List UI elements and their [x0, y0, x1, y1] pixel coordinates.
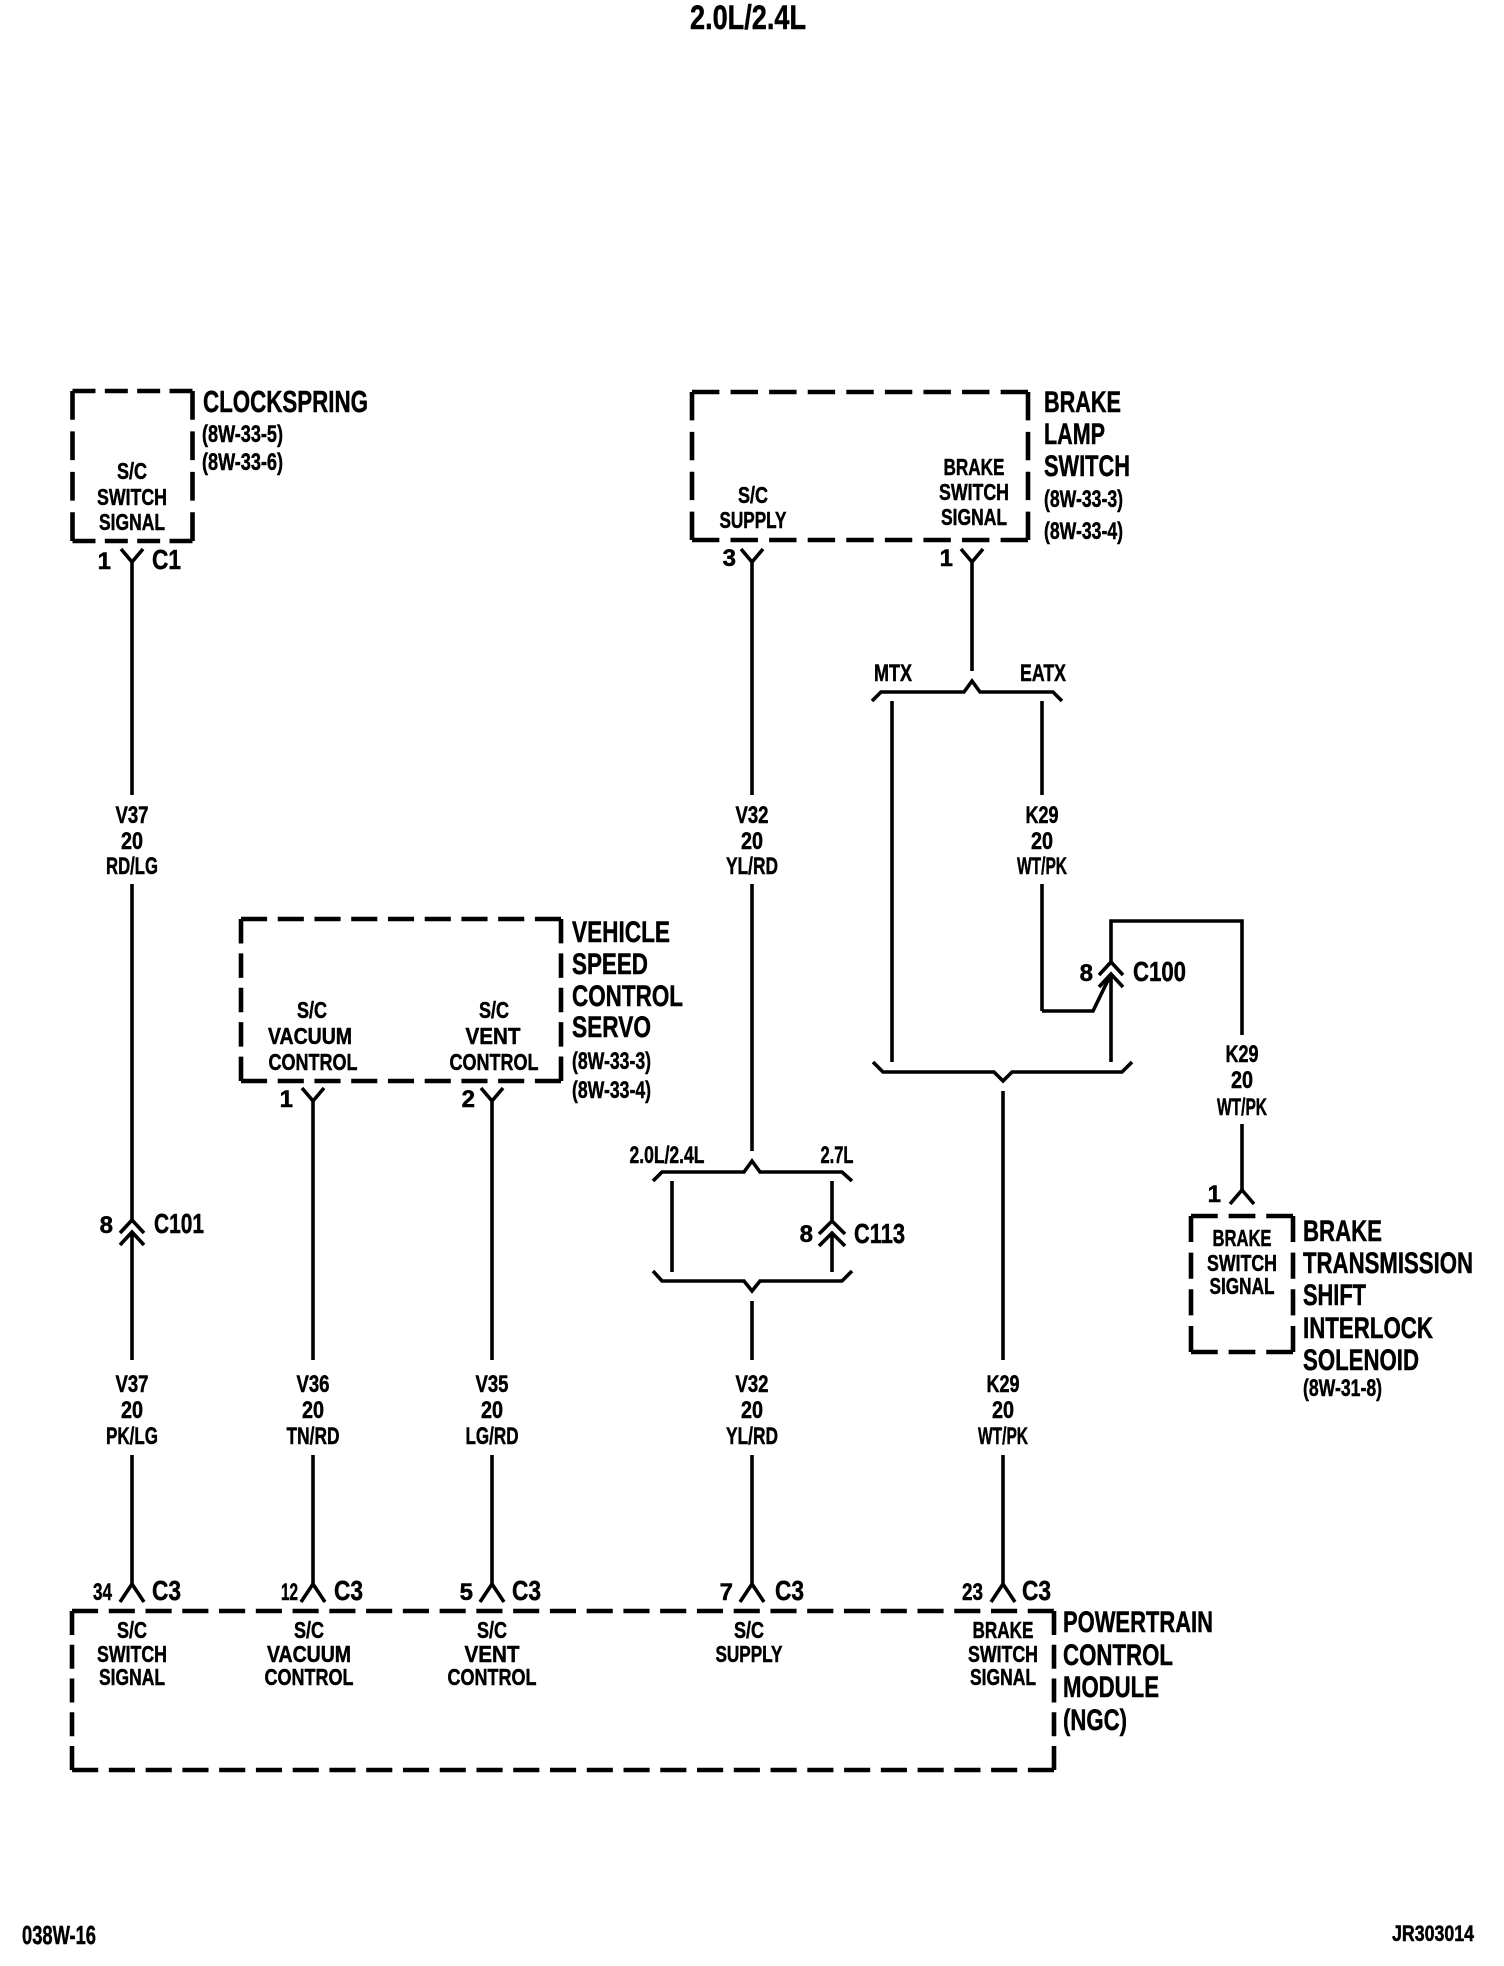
svg-text:BRAKE: BRAKE — [973, 1617, 1034, 1643]
svg-text:SHIFT: SHIFT — [1303, 1279, 1366, 1312]
svg-text:SIGNAL: SIGNAL — [970, 1664, 1036, 1690]
svg-text:PK/LG: PK/LG — [106, 1423, 158, 1450]
wire V32 20 YL/RD mid segment — [750, 884, 754, 1151]
connector C3 fork at PCM pin 34 — [120, 1584, 144, 1602]
svg-text:S/C: S/C — [294, 1617, 324, 1643]
wire MTX branch — [890, 701, 894, 1062]
svg-text:1: 1 — [940, 545, 953, 572]
svg-text:12: 12 — [281, 1579, 298, 1606]
svg-text:SWITCH: SWITCH — [939, 479, 1009, 505]
connector C113 inline chevrons — [819, 1221, 845, 1246]
component box: VEHICLE SPEED CONTROL SERVO — [241, 919, 561, 1081]
svg-text:CONTROL: CONTROL — [1063, 1639, 1173, 1672]
svg-text:(8W-33-3): (8W-33-3) — [572, 1048, 651, 1075]
svg-text:TRANSMISSION: TRANSMISSION — [1303, 1247, 1473, 1280]
svg-text:2.7L: 2.7L — [821, 1142, 854, 1169]
svg-text:SOLENOID: SOLENOID — [1303, 1344, 1419, 1377]
wire elbow to C100 — [1042, 974, 1111, 1011]
wire K29 20 WT/PK lower segment — [1001, 1455, 1005, 1584]
svg-text:20: 20 — [1231, 1067, 1253, 1094]
wire V37 20 PK/LG lower segment — [130, 1455, 134, 1584]
svg-text:(8W-31-8): (8W-31-8) — [1303, 1375, 1382, 1402]
svg-text:2.0L/2.4L: 2.0L/2.4L — [690, 0, 806, 37]
svg-text:8: 8 — [1080, 960, 1093, 987]
svg-text:1: 1 — [280, 1086, 293, 1113]
svg-text:YL/RD: YL/RD — [726, 1423, 778, 1450]
svg-text:(8W-33-6): (8W-33-6) — [202, 449, 283, 476]
svg-text:SUPPLY: SUPPLY — [720, 507, 787, 533]
servo pin 1 fork — [302, 1088, 324, 1101]
connector C3 fork at PCM pin 23 — [991, 1584, 1015, 1602]
svg-text:8: 8 — [100, 1212, 113, 1239]
wire 2.0L/2.4L branch — [670, 1181, 674, 1272]
svg-text:S/C: S/C — [738, 482, 768, 508]
svg-text:S/C: S/C — [117, 458, 147, 484]
svg-text:WT/PK: WT/PK — [1017, 853, 1067, 880]
svg-text:BRAKE: BRAKE — [1044, 386, 1121, 419]
wire V32 20 YL/RD lower segment — [750, 1455, 754, 1584]
svg-text:VACUUM: VACUUM — [268, 1023, 352, 1049]
svg-text:2: 2 — [462, 1086, 475, 1113]
svg-text:K29: K29 — [987, 1371, 1020, 1398]
wire V36 20 TN/RD lower segment — [311, 1455, 315, 1584]
wire V35 20 LG/RD lower segment — [490, 1455, 494, 1584]
svg-text:MTX: MTX — [874, 660, 912, 687]
svg-text:5: 5 — [460, 1579, 473, 1606]
solenoid pin 1 fork — [1230, 1190, 1254, 1204]
component box: BRAKE TRANSMISSION SHIFT INTERLOCK SOLENOID — [1191, 1216, 1293, 1352]
svg-text:V32: V32 — [736, 1371, 769, 1398]
svg-text:POWERTRAIN: POWERTRAIN — [1063, 1606, 1213, 1639]
connector C3 fork at PCM pin 12 — [301, 1584, 325, 1602]
svg-text:(8W-33-5): (8W-33-5) — [202, 421, 283, 448]
svg-text:SIGNAL: SIGNAL — [99, 1664, 165, 1690]
svg-text:C3: C3 — [152, 1575, 181, 1606]
svg-text:SWITCH: SWITCH — [97, 484, 167, 510]
svg-text:VENT: VENT — [466, 1023, 521, 1049]
svg-text:20: 20 — [121, 1397, 143, 1424]
svg-text:K29: K29 — [1026, 802, 1059, 829]
brake switch pin 1 fork — [961, 549, 983, 562]
svg-text:YL/RD: YL/RD — [726, 853, 778, 880]
svg-text:CONTROL: CONTROL — [448, 1664, 537, 1690]
svg-text:SIGNAL: SIGNAL — [941, 504, 1007, 530]
svg-text:S/C: S/C — [297, 997, 327, 1023]
svg-text:BRAKE: BRAKE — [944, 454, 1005, 480]
svg-text:V36: V36 — [297, 1371, 330, 1398]
svg-text:INTERLOCK: INTERLOCK — [1303, 1312, 1433, 1345]
svg-text:3: 3 — [723, 545, 736, 572]
wire 2.7L branch lower — [830, 1233, 834, 1272]
svg-text:MODULE: MODULE — [1063, 1671, 1159, 1704]
servo pin 2 fork — [481, 1088, 503, 1101]
wire K29 20 WT/PK to solenoid — [1240, 1124, 1244, 1190]
svg-text:V37: V37 — [116, 1371, 149, 1398]
connector C3 fork at PCM pin 5 — [480, 1584, 504, 1602]
svg-text:EATX: EATX — [1020, 660, 1066, 687]
wire K29 below merge — [1001, 1091, 1005, 1360]
svg-text:SUPPLY: SUPPLY — [716, 1641, 783, 1667]
svg-text:20: 20 — [1031, 828, 1053, 855]
wire from C100 up and over to solenoid drop — [1111, 921, 1242, 1035]
svg-text:20: 20 — [741, 1397, 763, 1424]
wire V37 20 RD/LG upper segment — [130, 562, 134, 795]
svg-text:20: 20 — [121, 828, 143, 855]
wire V32 20 YL/RD upper segment — [750, 562, 754, 795]
svg-text:8: 8 — [800, 1221, 813, 1248]
wire K29 EATX upper segment — [1040, 701, 1044, 795]
svg-text:(8W-33-4): (8W-33-4) — [572, 1077, 651, 1104]
svg-text:(8W-33-3): (8W-33-3) — [1044, 486, 1123, 513]
svg-text:20: 20 — [302, 1397, 324, 1424]
svg-text:7: 7 — [720, 1579, 733, 1606]
svg-text:WT/PK: WT/PK — [978, 1423, 1028, 1450]
svg-text:V35: V35 — [476, 1371, 509, 1398]
svg-text:C100: C100 — [1133, 956, 1186, 987]
svg-text:V37: V37 — [116, 802, 149, 829]
connector C3 fork at PCM pin 7 — [740, 1584, 764, 1602]
wire 2.7L branch upper — [830, 1181, 834, 1221]
svg-text:LG/RD: LG/RD — [466, 1423, 519, 1450]
svg-text:038W-16: 038W-16 — [22, 1920, 96, 1950]
svg-text:SWITCH: SWITCH — [1044, 450, 1130, 483]
branch brace MTX/EATX split — [872, 681, 1062, 701]
svg-text:(8W-33-4): (8W-33-4) — [1044, 518, 1123, 545]
component box: CLOCKSPRING — [73, 391, 193, 541]
wire V32 20 YL/RD below merge — [750, 1301, 754, 1360]
connector C101 inline chevrons — [120, 1220, 144, 1245]
svg-text:JR303014: JR303014 — [1392, 1921, 1475, 1946]
svg-text:VEHICLE: VEHICLE — [572, 916, 670, 949]
wire V35 20 LG/RD upper segment — [490, 1101, 494, 1360]
branch brace upper (engine split) — [653, 1161, 852, 1181]
svg-text:C113: C113 — [854, 1218, 905, 1249]
component box: POWERTRAIN CONTROL MODULE (NGC) — [72, 1611, 1054, 1770]
connector C100 inline chevrons — [1099, 962, 1123, 987]
svg-text:C3: C3 — [334, 1575, 363, 1606]
svg-text:20: 20 — [741, 828, 763, 855]
branch brace lower (engine merge) — [653, 1271, 852, 1291]
svg-text:SERVO: SERVO — [572, 1011, 651, 1044]
wire brake switch signal from pin 1 — [970, 562, 974, 671]
svg-text:34: 34 — [93, 1579, 112, 1606]
svg-text:K29: K29 — [1226, 1041, 1259, 1068]
svg-text:LAMP: LAMP — [1044, 418, 1105, 451]
svg-text:20: 20 — [481, 1397, 503, 1424]
svg-text:SIGNAL: SIGNAL — [99, 509, 165, 535]
svg-text:C3: C3 — [512, 1575, 541, 1606]
svg-text:S/C: S/C — [117, 1617, 147, 1643]
svg-text:WT/PK: WT/PK — [1217, 1094, 1267, 1121]
svg-text:SPEED: SPEED — [572, 948, 648, 981]
svg-text:CONTROL: CONTROL — [265, 1664, 354, 1690]
svg-text:BRAKE: BRAKE — [1303, 1215, 1382, 1248]
svg-text:23: 23 — [962, 1579, 983, 1606]
svg-text:C3: C3 — [1022, 1575, 1051, 1606]
svg-text:(NGC): (NGC) — [1063, 1704, 1127, 1737]
branch brace MTX/EATX merge — [873, 1062, 1132, 1081]
wire K29 EATX lower segment — [1040, 884, 1044, 1011]
svg-text:TN/RD: TN/RD — [287, 1423, 340, 1450]
svg-text:C1: C1 — [152, 544, 181, 575]
svg-text:C101: C101 — [154, 1208, 204, 1239]
component box: BRAKE LAMP SWITCH — [692, 392, 1028, 540]
wire V36 20 TN/RD upper segment — [311, 1101, 315, 1360]
svg-text:S/C: S/C — [477, 1617, 507, 1643]
wire V37 20 PK/LG upper segment — [130, 1232, 134, 1360]
svg-text:20: 20 — [992, 1397, 1014, 1424]
svg-text:1: 1 — [98, 548, 111, 575]
wire V37 20 RD/LG lower segment — [130, 884, 134, 1220]
svg-text:BRAKE: BRAKE — [1213, 1225, 1272, 1251]
svg-text:CONTROL: CONTROL — [269, 1049, 358, 1075]
svg-text:CONTROL: CONTROL — [450, 1049, 539, 1075]
svg-text:V32: V32 — [736, 802, 769, 829]
svg-text:1: 1 — [1208, 1181, 1221, 1208]
wire C100 to merge brace — [1109, 974, 1113, 1062]
svg-text:CONTROL: CONTROL — [572, 980, 683, 1013]
svg-text:S/C: S/C — [479, 997, 509, 1023]
svg-text:CLOCKSPRING: CLOCKSPRING — [203, 384, 368, 419]
svg-text:2.0L/2.4L: 2.0L/2.4L — [630, 1142, 705, 1169]
svg-text:SIGNAL: SIGNAL — [1210, 1273, 1275, 1299]
svg-text:S/C: S/C — [734, 1617, 764, 1643]
svg-text:RD/LG: RD/LG — [106, 853, 158, 880]
svg-text:C3: C3 — [775, 1575, 804, 1606]
brake switch pin 3 fork — [741, 549, 763, 562]
connector C1 fork at clockspring pin 1 — [121, 549, 143, 562]
